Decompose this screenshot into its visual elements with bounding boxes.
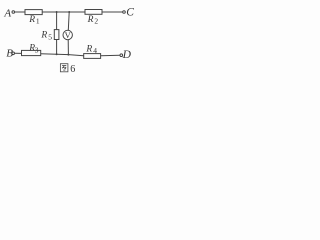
svg-text:R: R: [28, 15, 35, 25]
svg-text:6: 6: [70, 64, 75, 75]
svg-text:A: A: [3, 7, 11, 19]
svg-text:3: 3: [35, 45, 39, 54]
svg-text:R: R: [85, 44, 92, 54]
svg-text:2: 2: [94, 17, 98, 26]
svg-text:D: D: [122, 49, 132, 61]
svg-text:1: 1: [36, 17, 40, 26]
svg-text:R: R: [87, 15, 94, 25]
svg-text:V: V: [65, 30, 72, 40]
svg-text:C: C: [126, 7, 134, 19]
svg-text:4: 4: [93, 46, 97, 55]
svg-text:B: B: [6, 48, 13, 60]
svg-text:R: R: [40, 30, 47, 40]
svg-text:5: 5: [48, 32, 52, 41]
